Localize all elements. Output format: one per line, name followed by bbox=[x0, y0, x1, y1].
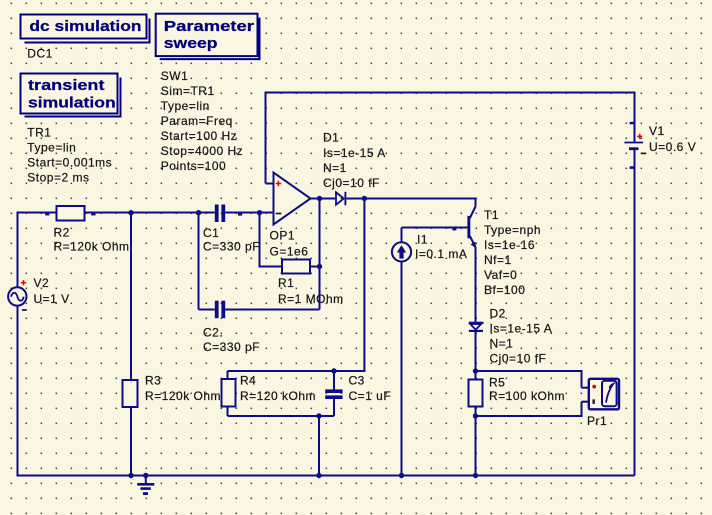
svg-text:D1: D1 bbox=[323, 130, 339, 144]
svg-text:R=120 kOhm: R=120 kOhm bbox=[240, 389, 316, 403]
wire probe top bbox=[476, 370, 582, 372]
capacitor C1 bbox=[203, 205, 260, 254]
svg-text:transient: transient bbox=[28, 76, 105, 93]
svg-text:C=330 pF: C=330 pF bbox=[203, 239, 260, 253]
ground bbox=[137, 476, 154, 494]
node R5 top / probe bbox=[473, 368, 478, 373]
svg-text:SW1: SW1 bbox=[161, 69, 189, 83]
resistor R1 bbox=[278, 260, 344, 306]
svg-text:Cj0=10 fF: Cj0=10 fF bbox=[323, 176, 380, 190]
source V1 bbox=[624, 124, 696, 154]
svg-text:Is=1e-16: Is=1e-16 bbox=[484, 238, 535, 252]
svg-text:dc simulation: dc simulation bbox=[29, 18, 141, 35]
svg-text:R5: R5 bbox=[489, 376, 505, 390]
node rail R3 bbox=[128, 473, 133, 478]
resistor R4 bbox=[222, 374, 317, 407]
node rail ground bbox=[143, 473, 148, 478]
wire filter top y=371 bbox=[228, 370, 366, 372]
diode D1 bbox=[323, 130, 386, 205]
svg-text:I1: I1 bbox=[417, 233, 428, 247]
dc simulation box DC1 bbox=[21, 15, 151, 61]
svg-text:C2.: C2. bbox=[203, 325, 223, 339]
svg-text:sweep: sweep bbox=[164, 35, 218, 52]
node R2/R3 bbox=[128, 210, 133, 215]
svg-text:C3: C3 bbox=[349, 374, 365, 388]
svg-text:R4: R4 bbox=[240, 374, 256, 388]
resistor R2 bbox=[54, 206, 130, 254]
svg-text:C1: C1 bbox=[203, 226, 219, 240]
svg-text:R=100 kOhm: R=100 kOhm bbox=[489, 389, 565, 403]
wire output vertical x=319.5 bbox=[319, 199, 321, 310]
wire emitter chain x=475.5 bbox=[475, 247, 477, 322]
svg-text:Stop=2 ms: Stop=2 ms bbox=[27, 170, 89, 184]
node inverting input bbox=[257, 210, 262, 215]
svg-text:OP1: OP1 bbox=[270, 229, 296, 243]
svg-text:simulation: simulation bbox=[28, 95, 116, 112]
wire opamp noninverting input bbox=[265, 93, 267, 184]
svg-text:V2: V2 bbox=[34, 276, 50, 290]
svg-text:Cj0=10 fF: Cj0=10 fF bbox=[490, 352, 547, 366]
svg-text:G=1e6: G=1e6 bbox=[270, 245, 309, 259]
source V2 bbox=[8, 276, 70, 310]
svg-text:Param=Freq: Param=Freq bbox=[161, 114, 233, 128]
svg-text:I=0.1 mA: I=0.1 mA bbox=[415, 247, 467, 261]
svg-text:Bf=100: Bf=100 bbox=[484, 283, 525, 297]
svg-text:TR1: TR1 bbox=[27, 125, 51, 139]
node rail I1 bbox=[399, 473, 404, 478]
svg-text:Type=lin: Type=lin bbox=[161, 99, 210, 113]
svg-text:V1: V1 bbox=[649, 124, 665, 138]
wire C2 branch x=198.5 bbox=[198, 213, 200, 310]
pin tick marks bbox=[45, 122, 634, 230]
svg-text:C=1 uF: C=1 uF bbox=[349, 389, 392, 403]
svg-text:DC1: DC1 bbox=[27, 47, 53, 61]
wire left vertical x=17.5 bbox=[17, 212, 19, 477]
op-amp OP1 bbox=[270, 173, 311, 259]
transient simulation box TR1 bbox=[21, 74, 122, 185]
node R1 right bbox=[317, 264, 322, 269]
node diode output bbox=[362, 196, 367, 201]
resistor R3 bbox=[123, 374, 222, 407]
svg-text:D2: D2 bbox=[490, 307, 506, 321]
node rail R5 bbox=[473, 473, 478, 478]
svg-text:Nf=1: Nf=1 bbox=[484, 253, 512, 267]
wire top signal y=212.5 bbox=[18, 212, 215, 214]
svg-text:Is=1e-15 A: Is=1e-15 A bbox=[323, 146, 386, 160]
resistor R5 bbox=[469, 376, 566, 407]
node opamp output bbox=[317, 196, 322, 201]
svg-text:R=1 MOhm: R=1 MOhm bbox=[278, 292, 344, 306]
svg-text:R=120k Ohm: R=120k Ohm bbox=[54, 240, 130, 254]
svg-text:Points=100: Points=100 bbox=[161, 159, 226, 173]
node rail filter bbox=[316, 473, 321, 478]
svg-text:N=1: N=1 bbox=[490, 336, 514, 350]
wire R4 stubs bbox=[227, 371, 229, 380]
svg-text:U=1 V: U=1 V bbox=[34, 292, 70, 306]
node R5 bottom / probe bbox=[473, 413, 478, 418]
wire ground drop x=319 bbox=[318, 416, 320, 476]
wire top rail y=92.5 bbox=[265, 92, 635, 94]
capacitor C2 bbox=[203, 301, 260, 354]
wire V1 vertical x=634.5 bbox=[634, 92, 636, 142]
wire base y=227.5 bbox=[402, 227, 468, 229]
svg-text:Start=100 Hz: Start=100 Hz bbox=[161, 129, 237, 143]
wire R1 branch bbox=[259, 213, 261, 267]
wire C3 stubs bbox=[333, 371, 335, 390]
svg-text:C=330 pF: C=330 pF bbox=[203, 340, 260, 354]
wire I1 vertical x=401.5 bbox=[401, 228, 403, 476]
wire filter branch x=364.4 bbox=[363, 199, 365, 372]
svg-text:U=0.6 V: U=0.6 V bbox=[649, 140, 696, 154]
svg-text:R1: R1 bbox=[278, 276, 294, 290]
parameter sweep box SW1 bbox=[156, 14, 261, 173]
wire C2 row y=309.5 bbox=[199, 309, 215, 311]
node filter bottom bbox=[316, 413, 321, 418]
wire R3 branch x=131 bbox=[130, 213, 132, 476]
transistor T1 bbox=[467, 207, 541, 298]
svg-text:R2: R2 bbox=[54, 226, 70, 240]
wire filter bottom y=416 bbox=[228, 415, 335, 417]
svg-text:Parameter: Parameter bbox=[164, 17, 255, 34]
svg-text:N=1: N=1 bbox=[323, 161, 347, 175]
junction nodes bbox=[128, 196, 478, 478]
svg-text:Pr1: Pr1 bbox=[587, 414, 607, 428]
svg-text:Stop=4000 Hz: Stop=4000 Hz bbox=[161, 144, 243, 158]
node C1/C2 branch bbox=[196, 210, 201, 215]
diode D2 bbox=[469, 307, 552, 366]
svg-text:R=120k Ohm: R=120k Ohm bbox=[145, 389, 221, 403]
node C3 top bbox=[331, 368, 336, 373]
capacitor C3 bbox=[325, 374, 391, 404]
svg-text:Sim=TR1: Sim=TR1 bbox=[161, 84, 215, 98]
svg-text:Vaf=0: Vaf=0 bbox=[484, 268, 517, 282]
svg-text:Type=nph: Type=nph bbox=[484, 223, 541, 237]
wire probe bottom bbox=[476, 415, 582, 417]
svg-text:T1: T1 bbox=[484, 208, 499, 222]
svg-text:R3: R3 bbox=[145, 374, 161, 388]
svg-text:Start=0.001ms: Start=0.001ms bbox=[27, 155, 112, 169]
wire bottom rail y=475.5 bbox=[17, 475, 635, 477]
probe Pr1 bbox=[587, 379, 619, 428]
svg-text:Is=1e-15 A: Is=1e-15 A bbox=[490, 322, 553, 336]
wire opamp output y=198.5 bbox=[311, 198, 336, 200]
svg-text:Type=lin: Type=lin bbox=[27, 140, 76, 154]
current source I1 bbox=[392, 233, 467, 262]
